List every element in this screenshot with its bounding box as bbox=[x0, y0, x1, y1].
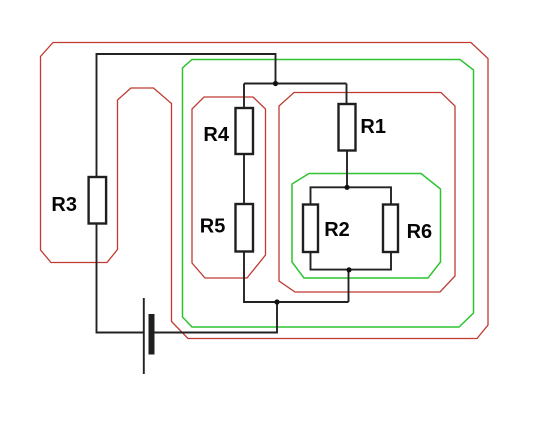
svg-text:R5: R5 bbox=[200, 215, 226, 237]
svg-text:R6: R6 bbox=[407, 221, 433, 243]
svg-text:R3: R3 bbox=[51, 194, 77, 216]
svg-text:R1: R1 bbox=[360, 116, 386, 138]
svg-text:R4: R4 bbox=[203, 124, 229, 146]
svg-text:R2: R2 bbox=[324, 219, 350, 241]
